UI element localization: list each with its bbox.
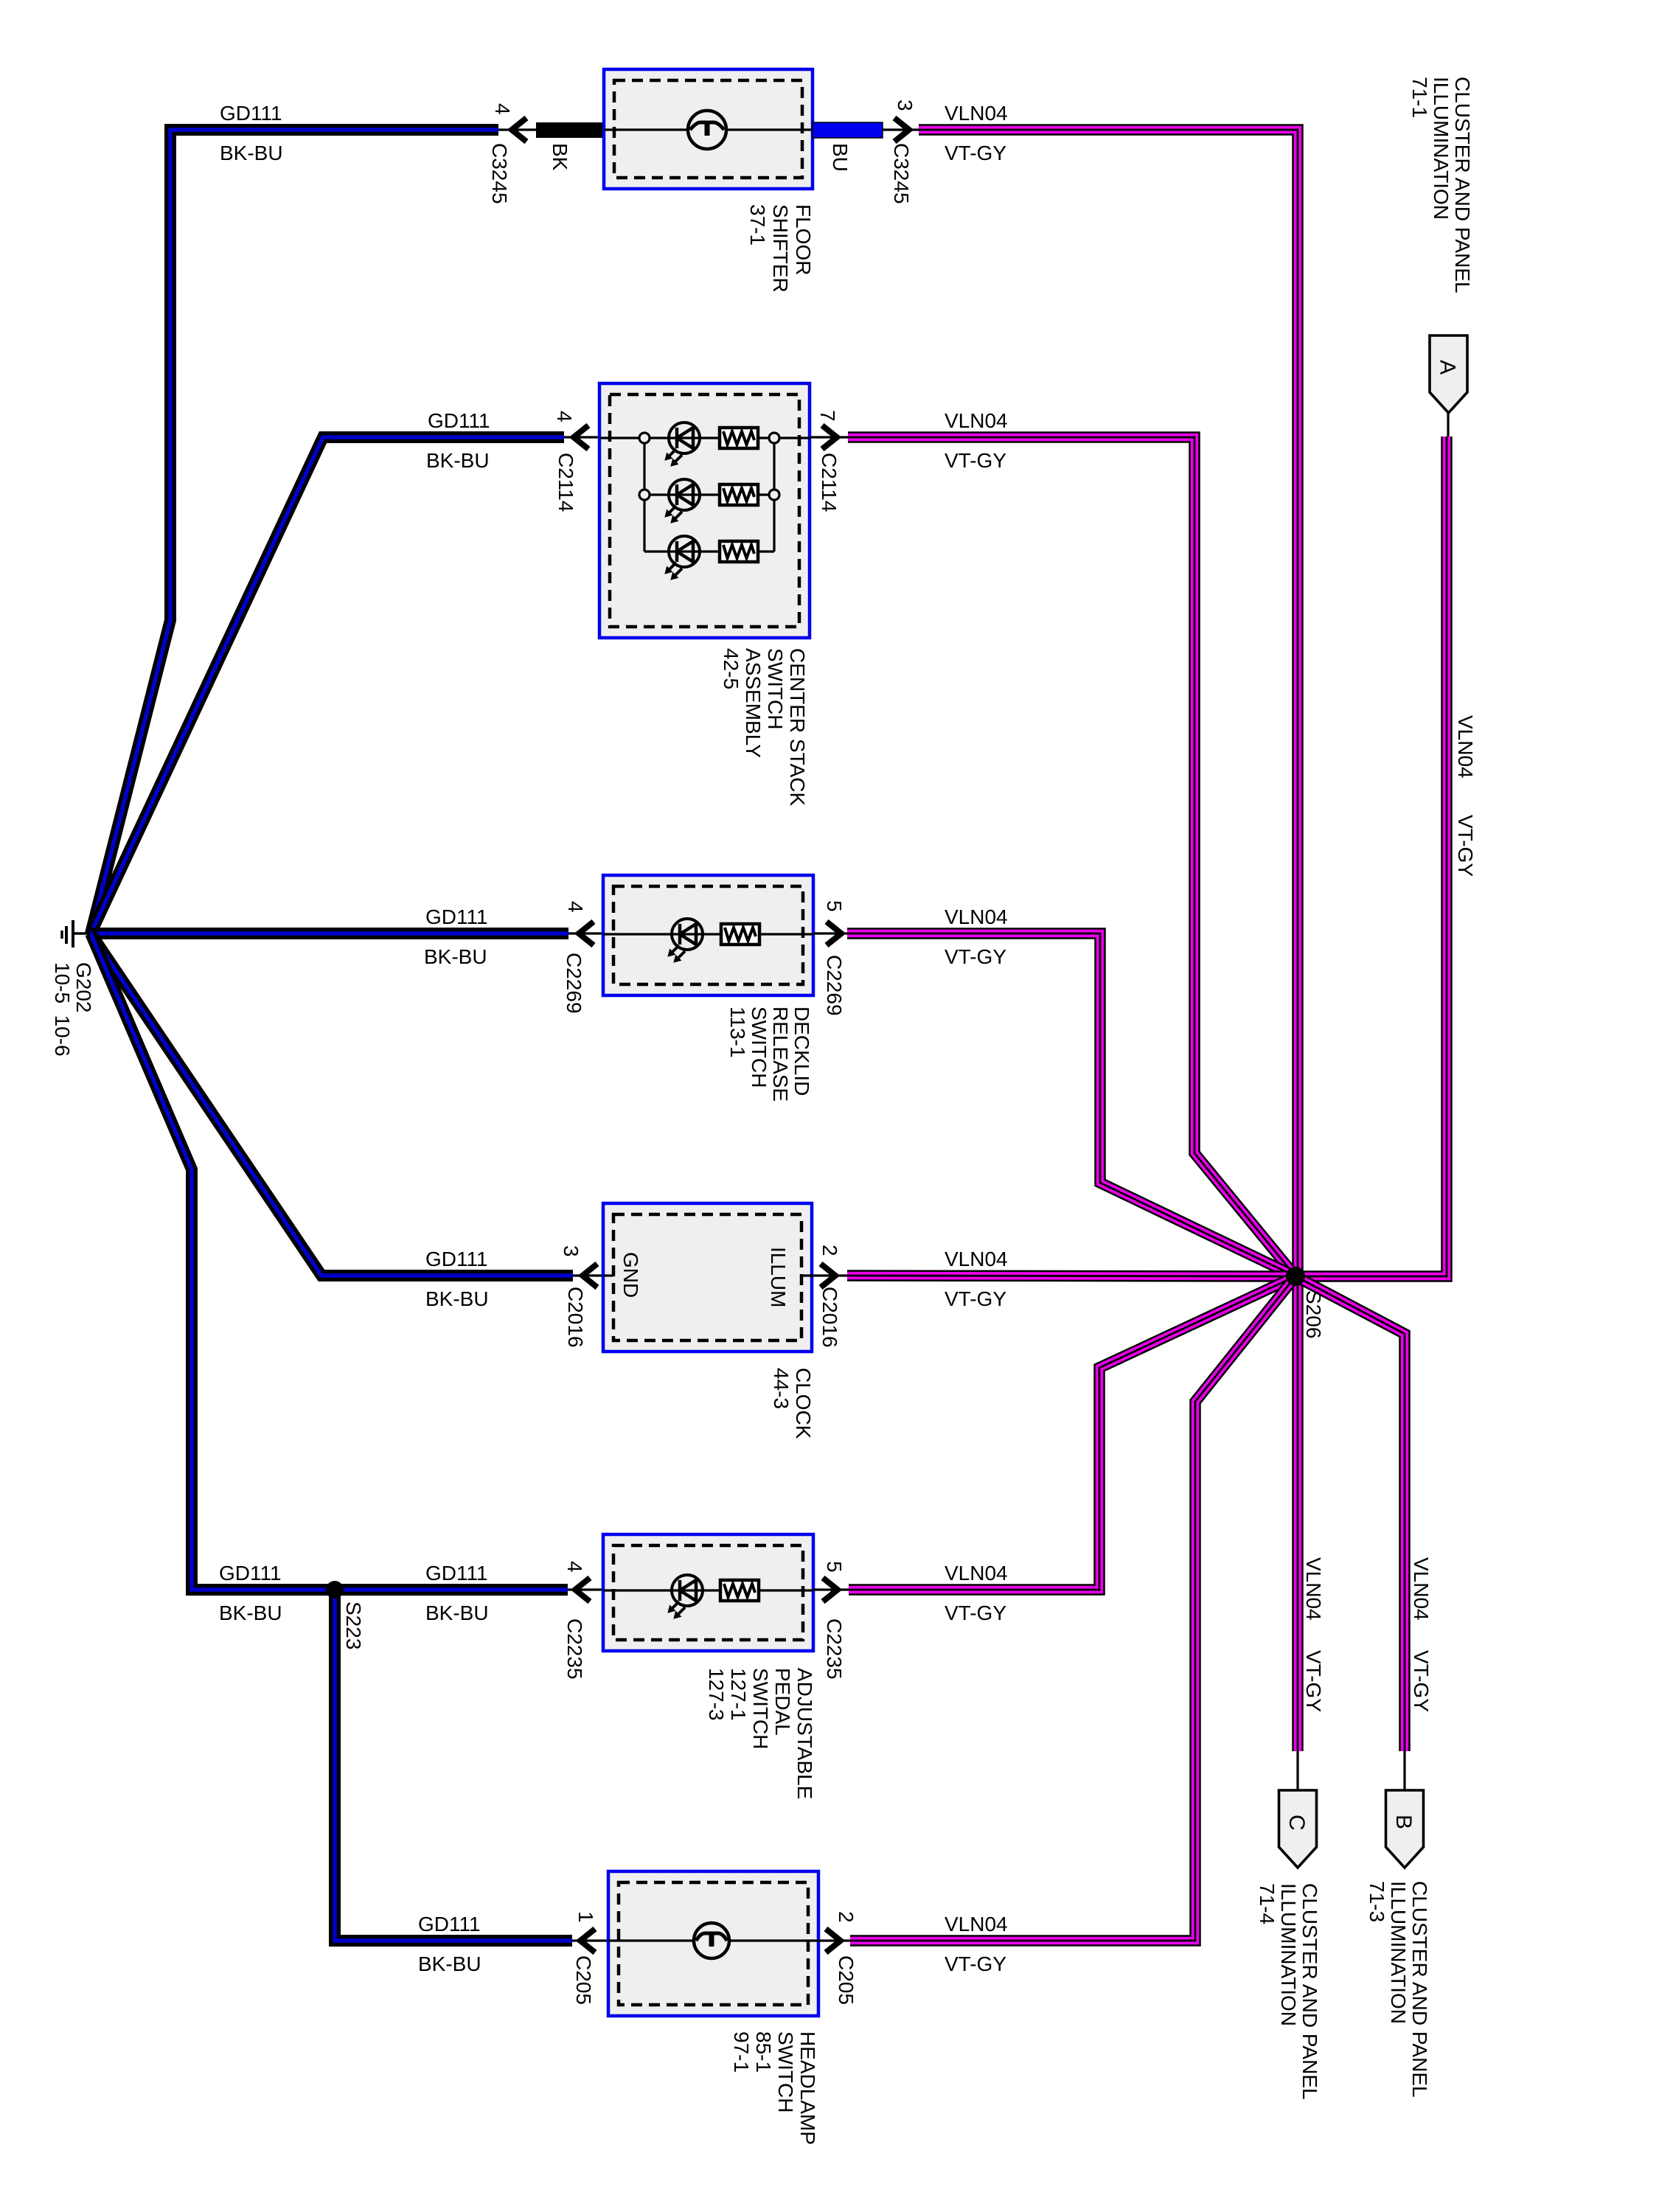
wire VLN04 row3 decklid to S206 (VLN04 VT-GY): [847, 933, 1295, 1276]
wire row6 lead left: [572, 1939, 608, 1941]
wire row3 lead left: [568, 932, 603, 934]
wire row5 inside: [603, 1589, 813, 1591]
wire GD111 row5 to G202 (GD111 BK-BU): [91, 933, 568, 1590]
wire BK pigtail: [536, 122, 604, 138]
connector arrow C2016 pin 2: [821, 1264, 835, 1287]
wire GD111 row4 clock to G202 (GD111 BK-BU): [91, 933, 573, 1276]
wire VLN04 row2 center-stack to S206 (VLN04 VT-GY): [848, 437, 1295, 1276]
svg-text:VLN04: VLN04: [945, 409, 1008, 432]
svg-text:BK-BU: BK-BU: [425, 1287, 489, 1310]
connector flag connector C: [1279, 1790, 1317, 1868]
svg-text:3: 3: [560, 1245, 582, 1257]
svg-text:VT-GY: VT-GY: [1410, 1650, 1433, 1712]
resistor decklid R: [721, 924, 759, 945]
svg-text:BK: BK: [549, 143, 571, 171]
wire row1 inside right: [726, 128, 813, 131]
svg-text:C205: C205: [835, 1955, 858, 2005]
svg-text:3: 3: [894, 100, 917, 111]
connector arrow C2114 pin 7: [822, 425, 837, 449]
svg-text:VLN04: VLN04: [1410, 1557, 1433, 1621]
component box adjustable pedal switch: [603, 1534, 813, 1651]
wire row5 lead right: [813, 1588, 849, 1590]
svg-text:GD111: GD111: [428, 409, 490, 432]
svg-text:C2269: C2269: [563, 953, 585, 1014]
svg-text:VT-GY: VT-GY: [945, 1601, 1006, 1624]
resistor center stack R1: [720, 428, 758, 448]
wire row1 lead left: [498, 128, 536, 131]
splice S206: [1286, 1267, 1305, 1286]
connector flag connector A: [1430, 335, 1467, 413]
connector arrow C2235 pin 4: [575, 1578, 590, 1601]
wire lead to flag C: [1296, 1751, 1298, 1790]
svg-text:VLN04: VLN04: [1454, 715, 1477, 779]
wire lead to flag B: [1403, 1751, 1405, 1790]
wire row4 stub left: [603, 1274, 613, 1276]
svg-text:GND: GND: [619, 1252, 642, 1298]
svg-text:BU: BU: [829, 143, 852, 172]
wire GD111 row3 to G202 (GD111 BK-BU): [91, 928, 568, 939]
svg-text:C2235: C2235: [823, 1618, 846, 1680]
wire VLN04 S206 to connector A (VLN04 VT-GY): [1295, 437, 1447, 1276]
svg-text:2: 2: [835, 1911, 858, 1923]
wire row2 branch1: [599, 437, 810, 439]
LED decklid LED: [668, 919, 703, 962]
svg-text:4: 4: [553, 411, 576, 422]
svg-text:S206: S206: [1302, 1290, 1325, 1338]
svg-text:VLN04: VLN04: [945, 102, 1008, 125]
connector arrow C2016 pin 3: [582, 1264, 597, 1287]
svg-text:4: 4: [564, 901, 587, 913]
lamp headlamp switch illumination bulb: [694, 1923, 729, 1958]
component box decklid release switch: [603, 875, 813, 995]
svg-text:VT-GY: VT-GY: [945, 142, 1006, 164]
svg-text:GD111: GD111: [425, 905, 488, 928]
LED center stack LED 2: [665, 479, 700, 523]
wire row3 inside: [603, 933, 813, 935]
wire row2 branch3: [644, 550, 774, 552]
wire GD111 row2 to G202 (GD111 BK-BU): [91, 437, 564, 933]
svg-text:VT-GY: VT-GY: [1454, 815, 1477, 877]
wire GD111 row1 to G202 (GD111 BK-BU): [91, 130, 498, 933]
svg-text:C205: C205: [572, 1955, 595, 2005]
svg-text:1: 1: [574, 1911, 597, 1923]
connector arrow C205 pin 2: [826, 1929, 841, 1952]
connector arrow C2269 pin 4: [579, 922, 594, 945]
svg-text:B: B: [1391, 1815, 1416, 1829]
svg-text:GD111: GD111: [425, 1562, 488, 1585]
svg-text:C2114: C2114: [554, 453, 577, 512]
wire row6 lead right: [818, 1939, 850, 1941]
component box clock: [603, 1203, 812, 1352]
svg-text:5: 5: [823, 1561, 846, 1573]
svg-text:C2235: C2235: [563, 1618, 586, 1680]
component box headlamp switch: [608, 1871, 818, 2016]
wire row4 stub right: [801, 1274, 847, 1276]
svg-text:VLN04: VLN04: [945, 1248, 1008, 1270]
svg-text:BK-BU: BK-BU: [426, 449, 490, 472]
svg-text:VT-GY: VT-GY: [945, 1287, 1006, 1310]
wire row5 lead left: [568, 1588, 603, 1590]
svg-text:GD111: GD111: [220, 102, 282, 125]
svg-text:C2016: C2016: [818, 1287, 841, 1348]
svg-text:S223: S223: [342, 1601, 365, 1649]
svg-text:C2269: C2269: [823, 955, 846, 1016]
svg-text:BK-BU: BK-BU: [219, 1601, 282, 1624]
node circles: [639, 433, 650, 443]
wire VLN04 row4 clock to S206 (VLN04 VT-GY): [847, 1276, 1295, 1276]
wire row3 lead right: [813, 932, 847, 934]
wire row6 inside right: [729, 1939, 818, 1941]
svg-text:4: 4: [563, 1561, 586, 1573]
wire row4 lead left: [573, 1274, 603, 1276]
wire row2 branch2: [644, 493, 774, 495]
lamp floor shifter illumination bulb: [688, 111, 726, 149]
wire VLN04 row6 headlamp to S206 (VLN04 VT-GY): [850, 1276, 1295, 1941]
connector flag connector B: [1386, 1790, 1424, 1868]
svg-text:VT-GY: VT-GY: [945, 449, 1006, 472]
LED adj pedal LED: [668, 1575, 703, 1618]
svg-text:VLN04: VLN04: [945, 905, 1008, 928]
svg-text:VT-GY: VT-GY: [945, 1952, 1006, 1975]
wire row2 lead left: [564, 436, 599, 438]
wire BU pigtail: [813, 122, 883, 138]
svg-text:C: C: [1284, 1815, 1309, 1831]
LED center stack LED 1: [665, 422, 700, 466]
wire row6 inside left: [608, 1939, 694, 1941]
connector arrow C3245 pin 3: [894, 118, 909, 142]
wire row2 lead right: [810, 436, 848, 438]
svg-text:BK-BU: BK-BU: [418, 1952, 481, 1975]
LED center stack LED 3: [665, 536, 700, 580]
svg-text:4: 4: [491, 103, 514, 115]
svg-text:C3245: C3245: [890, 143, 913, 204]
svg-text:BK-BU: BK-BU: [424, 945, 487, 968]
component box floor shifter: [604, 69, 813, 189]
svg-text:VT-GY: VT-GY: [1302, 1650, 1325, 1712]
svg-text:A: A: [1436, 360, 1460, 375]
wire VLN04 row5 adj-pedal to S206 (VLN04 VT-GY): [849, 1276, 1295, 1590]
svg-text:C2114: C2114: [818, 453, 841, 512]
svg-text:VLN04: VLN04: [1302, 1557, 1325, 1621]
wire GD111 S223 to row6 headlamp (GD111 BK-BU): [335, 1590, 572, 1941]
svg-text:BK-BU: BK-BU: [425, 1601, 489, 1624]
svg-text:7: 7: [816, 410, 839, 422]
svg-text:VLN04: VLN04: [945, 1913, 1008, 1935]
svg-text:VLN04: VLN04: [945, 1562, 1008, 1585]
wire VLN04 S206 to connector B (VLN04 VT-GY): [1295, 1276, 1405, 1751]
ground G202: [62, 920, 91, 947]
wire lead to flag A: [1447, 413, 1449, 437]
connector arrow C2269 pin 5: [827, 922, 841, 945]
resistor center stack R2: [720, 484, 758, 505]
resistor adj pedal R: [720, 1580, 759, 1601]
svg-text:BK-BU: BK-BU: [220, 142, 283, 164]
svg-text:C3245: C3245: [488, 143, 511, 204]
svg-text:5: 5: [823, 900, 846, 912]
connector arrow C205 pin 1: [580, 1929, 595, 1952]
resistor center stack R3: [720, 541, 758, 562]
svg-text:2: 2: [818, 1245, 841, 1256]
svg-text:GD111: GD111: [219, 1562, 282, 1585]
connector arrow C3245 pin 4: [512, 118, 526, 142]
svg-text:GD111: GD111: [425, 1248, 488, 1270]
wire row2 tie right: [773, 438, 775, 552]
svg-text:VT-GY: VT-GY: [945, 945, 1006, 968]
svg-text:GD111: GD111: [418, 1913, 481, 1935]
wire row2 tie left: [643, 438, 645, 552]
component box center stack switch assembly: [599, 383, 810, 638]
svg-text:ILLUM: ILLUM: [767, 1247, 790, 1307]
splice S223: [326, 1581, 344, 1599]
wire row1 lead right: [883, 128, 919, 131]
svg-text:C2016: C2016: [564, 1287, 587, 1348]
connector arrow C2235 pin 5: [823, 1578, 838, 1601]
connector arrow C2114 pin 4: [574, 425, 588, 449]
wire row1 inside left: [604, 128, 688, 131]
wire VLN04 row1 floor-shifter to S206 (VLN04 VT-GY): [919, 130, 1298, 1751]
